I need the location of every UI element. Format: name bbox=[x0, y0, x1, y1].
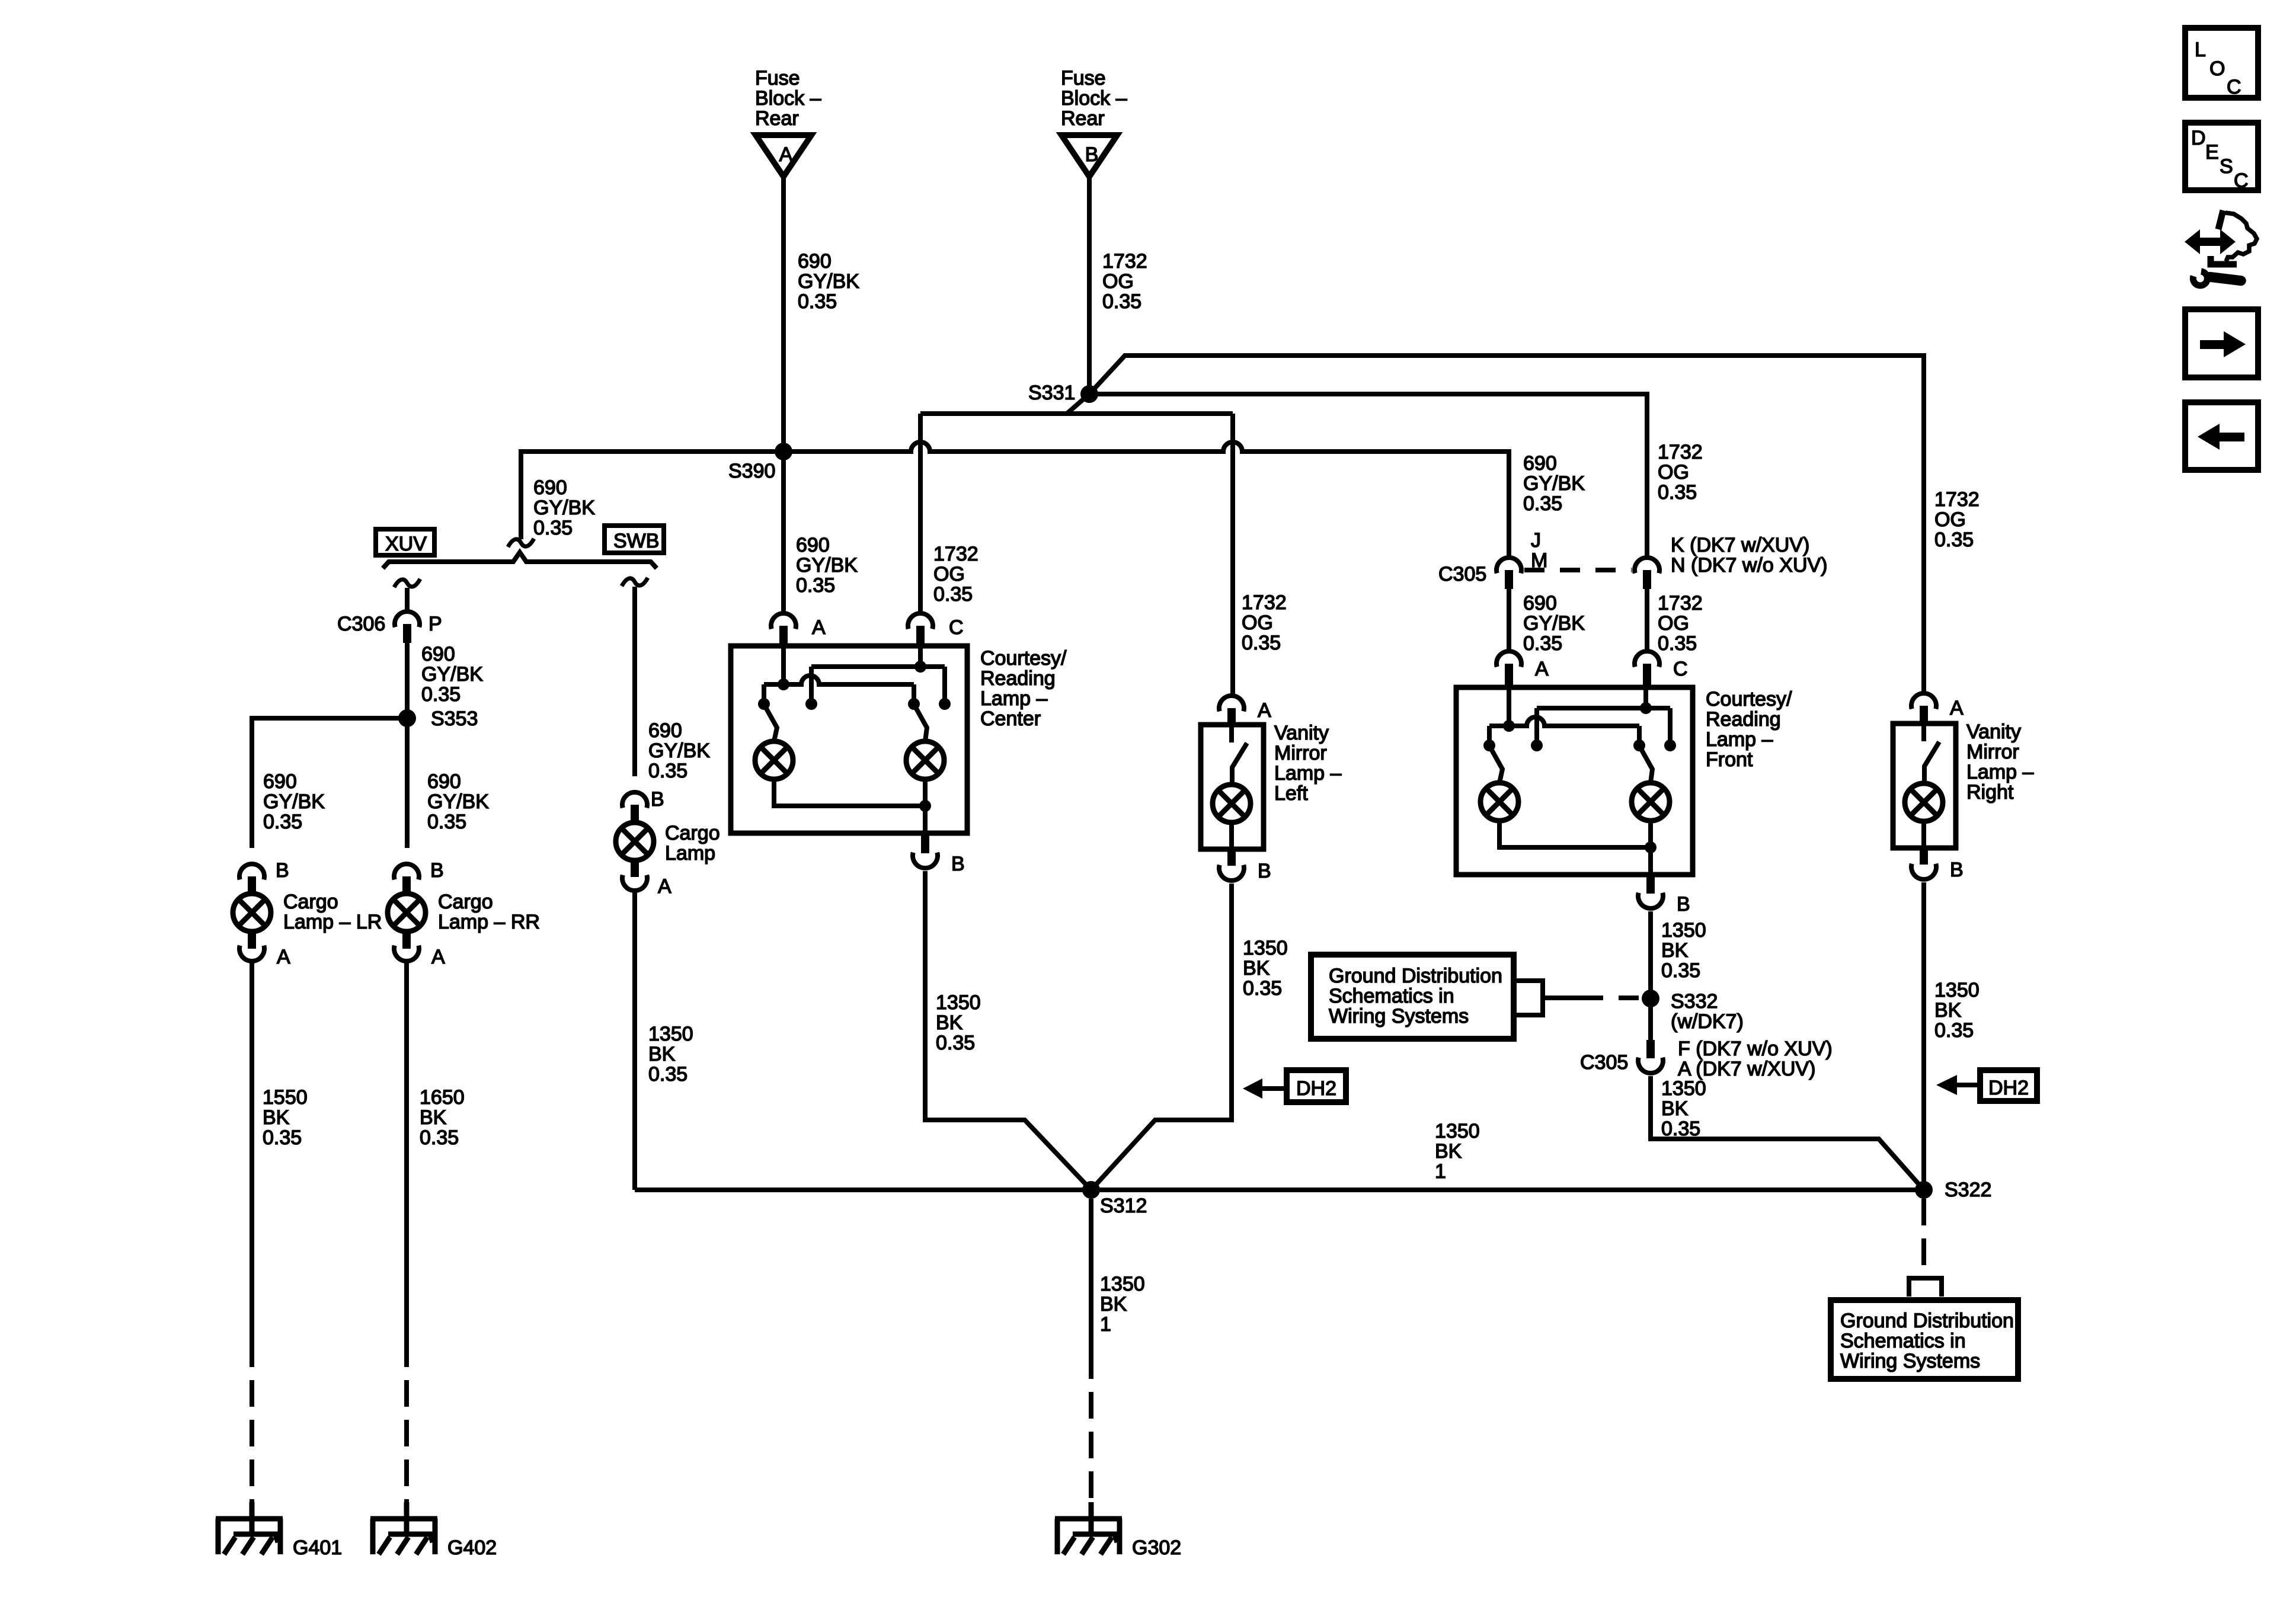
splice S312 bbox=[1082, 1181, 1147, 1217]
label box SWB bbox=[605, 526, 664, 553]
svg-text:0.35: 0.35 bbox=[1523, 632, 1562, 655]
svg-text:GY/BK: GY/BK bbox=[1523, 472, 1585, 495]
svg-text:Ground Distribution: Ground Distribution bbox=[1329, 965, 1502, 987]
icon previous-page arrow box bbox=[2185, 402, 2258, 470]
svg-text:Cargo: Cargo bbox=[438, 891, 493, 913]
svg-text:1350: 1350 bbox=[1934, 979, 1980, 1001]
svg-text:0.35: 0.35 bbox=[427, 811, 466, 833]
svg-text:BK: BK bbox=[1661, 939, 1689, 962]
wire XUV drop to C306 bbox=[405, 588, 410, 610]
svg-text:BK: BK bbox=[1661, 1097, 1689, 1120]
wire 690 GY/BK C306 to S353 bbox=[405, 643, 410, 718]
cargo lamp SWB connector B bbox=[622, 788, 664, 811]
svg-text:Lamp –: Lamp – bbox=[1274, 762, 1341, 785]
wire S331 to courtesy center C and vanity left bbox=[920, 394, 1233, 694]
svg-text:C306: C306 bbox=[337, 613, 385, 635]
svg-text:1732: 1732 bbox=[1242, 591, 1287, 614]
wire S390 left to XUV/SWB harness break bbox=[521, 452, 784, 539]
svg-text:Lamp –: Lamp – bbox=[1706, 728, 1773, 751]
courtesy/reading lamp center bbox=[731, 646, 1067, 833]
svg-text:1550: 1550 bbox=[263, 1086, 308, 1109]
svg-text:S331: S331 bbox=[1028, 382, 1075, 404]
svg-text:A: A bbox=[812, 616, 826, 639]
wire 1350 BK vanity left to S312 bbox=[1091, 884, 1232, 1190]
icon DESC box bbox=[2185, 123, 2258, 192]
label wire 1732 OG 0.35 (to C305 K/N) bbox=[1658, 441, 1703, 504]
wire dashed S322 to ground reference bbox=[1921, 1199, 1926, 1278]
svg-text:GY/BK: GY/BK bbox=[263, 790, 325, 813]
wire 690 GY/BK C305 to courtesy front A bbox=[1507, 589, 1511, 649]
svg-text:Mirror: Mirror bbox=[1274, 742, 1327, 764]
svg-text:B: B bbox=[1950, 859, 1964, 881]
cargo lamp RR connector B bbox=[394, 859, 444, 882]
svg-text:1732: 1732 bbox=[1658, 441, 1703, 463]
svg-text:Reading: Reading bbox=[1706, 708, 1781, 731]
cargo lamp LR bbox=[233, 876, 382, 949]
wire 690 GY/BK fuse A to S390 bbox=[781, 177, 786, 452]
wire S390 horizontal run with hops to C305 J/M bbox=[784, 442, 1509, 556]
harness break squiggle above brace bbox=[508, 539, 534, 547]
courtesy/reading lamp front bbox=[1456, 687, 1792, 875]
svg-text:A: A bbox=[1950, 697, 1964, 719]
svg-text:Right: Right bbox=[1966, 781, 2014, 804]
cargo lamp RR bbox=[388, 876, 540, 949]
wire 1350 BK ground bus bbox=[635, 1188, 1924, 1192]
connector vanity left pin B bbox=[1219, 849, 1271, 882]
harness option brace bbox=[383, 552, 657, 568]
svg-text:BK: BK bbox=[936, 1012, 963, 1034]
svg-text:B: B bbox=[951, 853, 965, 875]
wire S331 to vanity right (top run) bbox=[1089, 356, 1924, 692]
svg-text:GY/BK: GY/BK bbox=[1523, 612, 1585, 635]
svg-text:1732: 1732 bbox=[1934, 488, 1980, 511]
wire dashed to G302 bbox=[1089, 1352, 1093, 1502]
svg-text:0.35: 0.35 bbox=[1243, 977, 1282, 1000]
svg-text:B: B bbox=[651, 788, 664, 811]
label wire 1732 OG 0.35 (vanity right) bbox=[1934, 488, 1980, 551]
svg-text:GY/BK: GY/BK bbox=[796, 554, 858, 577]
svg-text:G302: G302 bbox=[1132, 1537, 1181, 1559]
svg-text:B: B bbox=[1677, 893, 1690, 916]
fuse block rear B label bbox=[1061, 67, 1127, 130]
svg-text:B: B bbox=[1085, 143, 1099, 166]
wire 690 GY/BK S390 run to C305 J bbox=[1523, 452, 1585, 515]
svg-text:B: B bbox=[430, 859, 444, 882]
label wire 690 GY/BK 0.35 (C306) bbox=[421, 643, 483, 706]
svg-text:0.35: 0.35 bbox=[648, 1063, 687, 1086]
connector C305 mating dashes bbox=[1524, 568, 1632, 572]
svg-text:0.35: 0.35 bbox=[1523, 492, 1562, 515]
svg-text:Fuse: Fuse bbox=[1061, 67, 1106, 89]
svg-text:690: 690 bbox=[263, 770, 297, 793]
splice S390 bbox=[728, 443, 792, 482]
svg-text:0.35: 0.35 bbox=[936, 1032, 975, 1054]
svg-text:B: B bbox=[1258, 860, 1271, 882]
wire 1350 BK courtesy center to S312 bbox=[925, 871, 1091, 1190]
svg-text:Left: Left bbox=[1274, 782, 1308, 805]
svg-text:0.35: 0.35 bbox=[796, 574, 835, 597]
ground G402 bbox=[370, 1502, 497, 1559]
cargo lamp RR connector A bbox=[394, 946, 445, 968]
svg-text:BK: BK bbox=[420, 1106, 447, 1129]
reference DH2 arrow (left) bbox=[1243, 1070, 1346, 1102]
svg-text:L: L bbox=[2195, 39, 2206, 61]
ground G401 bbox=[216, 1502, 342, 1559]
svg-text:Wiring Systems: Wiring Systems bbox=[1840, 1350, 1980, 1372]
wire 1350 BK C305 to S322 bbox=[1651, 1076, 1924, 1190]
cargo lamp SWB bbox=[616, 805, 720, 877]
svg-text:690: 690 bbox=[1523, 452, 1557, 475]
connector C305 pin F/A bbox=[1580, 1038, 1833, 1080]
svg-text:Courtesy/: Courtesy/ bbox=[1706, 688, 1792, 710]
svg-text:0.35: 0.35 bbox=[263, 811, 302, 833]
svg-text:BK: BK bbox=[263, 1106, 290, 1129]
svg-text:Wiring Systems: Wiring Systems bbox=[1329, 1005, 1469, 1028]
svg-text:C305: C305 bbox=[1580, 1051, 1628, 1074]
svg-text:0.35: 0.35 bbox=[1242, 632, 1281, 654]
wire 1350 BK vanity right to S322 bbox=[1921, 882, 1926, 1190]
wire 1732 OG fuse B to S331 bbox=[1087, 177, 1092, 394]
wire 1650 BK cargo RR to G402 bbox=[404, 963, 409, 1340]
svg-text:B: B bbox=[276, 859, 289, 882]
svg-text:0.35: 0.35 bbox=[1661, 959, 1700, 982]
svg-text:G401: G401 bbox=[293, 1537, 342, 1559]
svg-text:0.35: 0.35 bbox=[1658, 632, 1697, 655]
reference DH2 arrow (right) bbox=[1936, 1070, 2037, 1101]
svg-text:E: E bbox=[2205, 141, 2219, 164]
svg-text:690: 690 bbox=[1523, 592, 1557, 614]
label wire 690 GY/BK 0.35 (S390 left drop) bbox=[533, 476, 595, 539]
svg-text:P: P bbox=[428, 613, 442, 635]
label wire 690 GY/BK 0.35 (fuse A) bbox=[798, 250, 859, 313]
svg-text:Mirror: Mirror bbox=[1966, 741, 2019, 763]
connector courtesy center pin B bbox=[913, 833, 965, 875]
svg-text:C305: C305 bbox=[1438, 563, 1486, 585]
cargo lamp LR connector A bbox=[239, 946, 290, 968]
svg-text:J: J bbox=[1531, 529, 1541, 552]
svg-text:G402: G402 bbox=[447, 1537, 497, 1559]
svg-text:Lamp –: Lamp – bbox=[1966, 761, 2033, 783]
wire dashed to G401 bbox=[250, 1340, 254, 1502]
connector courtesy front pin A bbox=[1496, 651, 1549, 687]
svg-text:1732: 1732 bbox=[1102, 250, 1147, 273]
fuse block rear A label bbox=[755, 67, 821, 130]
harness break squiggle XUV drop bbox=[394, 579, 420, 587]
svg-text:S332: S332 bbox=[1671, 990, 1718, 1013]
svg-text:K (DK7 w/XUV): K (DK7 w/XUV) bbox=[1671, 534, 1809, 556]
wire 1350 BK S312 to G302 bbox=[1089, 1199, 1093, 1352]
svg-text:OG: OG bbox=[1658, 461, 1689, 484]
svg-text:1732: 1732 bbox=[1658, 592, 1703, 614]
svg-text:N (DK7 w/o XUV): N (DK7 w/o XUV) bbox=[1671, 554, 1828, 577]
svg-text:0.35: 0.35 bbox=[533, 517, 573, 539]
svg-text:Schematics in: Schematics in bbox=[1840, 1330, 1966, 1352]
connector C305 pins K/N bbox=[1635, 534, 1828, 589]
svg-text:OG: OG bbox=[1102, 270, 1134, 293]
wire S331 to C305 K/N bbox=[1089, 394, 1647, 556]
wire 690 GY/BK S390 to courtesy center A bbox=[781, 452, 786, 612]
svg-text:1732: 1732 bbox=[933, 543, 978, 565]
svg-text:DH2: DH2 bbox=[1988, 1077, 2029, 1099]
wire 1732 OG C305 to courtesy front C bbox=[1645, 589, 1649, 649]
svg-text:Block –: Block – bbox=[755, 87, 821, 110]
svg-text:1: 1 bbox=[1435, 1160, 1446, 1183]
svg-text:OG: OG bbox=[933, 563, 965, 585]
svg-text:1350: 1350 bbox=[936, 991, 981, 1014]
wire S353 to cargo lamp RR bbox=[405, 718, 410, 848]
svg-text:A: A bbox=[658, 875, 671, 898]
svg-text:Lamp – RR: Lamp – RR bbox=[438, 911, 540, 933]
svg-text:Center: Center bbox=[980, 708, 1041, 730]
label wire 690 GY/BK 0.35 (SWB) bbox=[648, 719, 710, 782]
svg-text:690: 690 bbox=[533, 476, 567, 499]
connector vanity right pin B bbox=[1911, 848, 1964, 881]
svg-text:S: S bbox=[2220, 155, 2233, 178]
svg-text:SWB: SWB bbox=[613, 530, 659, 552]
svg-text:0.35: 0.35 bbox=[421, 683, 461, 706]
svg-text:GY/BK: GY/BK bbox=[798, 270, 859, 293]
svg-text:Rear: Rear bbox=[1061, 107, 1105, 130]
svg-text:1350: 1350 bbox=[648, 1023, 693, 1045]
icon LOC box bbox=[2185, 28, 2258, 98]
svg-text:1350: 1350 bbox=[1100, 1273, 1145, 1295]
icon schematic-usage (arrow + outline + wrench) bbox=[2185, 210, 2257, 286]
connector vanity right pin A bbox=[1911, 693, 1964, 724]
connector courtesy front pin C bbox=[1635, 651, 1688, 687]
svg-text:0.35: 0.35 bbox=[263, 1126, 302, 1149]
svg-text:BK: BK bbox=[1100, 1293, 1127, 1315]
splice S331 bbox=[1028, 382, 1098, 404]
svg-text:690: 690 bbox=[648, 719, 682, 742]
svg-text:Ground Distribution: Ground Distribution bbox=[1840, 1310, 2014, 1332]
svg-text:S390: S390 bbox=[728, 460, 775, 482]
svg-text:GY/BK: GY/BK bbox=[427, 790, 489, 813]
svg-text:1350: 1350 bbox=[1661, 919, 1706, 942]
connector C305 pins J/M bbox=[1438, 529, 1547, 589]
svg-text:GY/BK: GY/BK bbox=[533, 497, 595, 519]
wire 1350 BK courtesy front to S332 bbox=[1648, 911, 1653, 1040]
svg-text:0.35: 0.35 bbox=[798, 290, 837, 313]
off-page connector bracket bbox=[1907, 1278, 1944, 1297]
svg-text:0.35: 0.35 bbox=[1658, 481, 1697, 504]
svg-text:Courtesy/: Courtesy/ bbox=[980, 647, 1067, 670]
svg-text:1350: 1350 bbox=[1243, 937, 1288, 959]
ground distribution reference box (S332) bbox=[1311, 955, 1641, 1039]
connector courtesy center pin C bbox=[908, 613, 964, 646]
label wire 1732 OG 0.35 (vanity left) bbox=[1242, 591, 1287, 654]
svg-text:Fuse: Fuse bbox=[755, 67, 800, 89]
wire 1550 BK cargo LR to G401 bbox=[250, 963, 254, 1340]
svg-text:BK: BK bbox=[1435, 1140, 1462, 1163]
label wire 690 GY/BK 0.35 (RR branch) bbox=[427, 770, 489, 833]
svg-text:XUV: XUV bbox=[385, 533, 427, 555]
svg-text:Reading: Reading bbox=[980, 667, 1056, 690]
svg-text:Vanity: Vanity bbox=[1966, 721, 2021, 743]
svg-text:Cargo: Cargo bbox=[283, 891, 338, 913]
svg-text:Lamp: Lamp bbox=[665, 842, 715, 865]
svg-text:DH2: DH2 bbox=[1296, 1077, 1336, 1100]
svg-text:C: C bbox=[2234, 169, 2249, 192]
svg-text:0.35: 0.35 bbox=[1661, 1118, 1700, 1140]
svg-text:F (DK7 w/o XUV): F (DK7 w/o XUV) bbox=[1678, 1038, 1833, 1060]
ground G302 bbox=[1055, 1502, 1181, 1559]
svg-text:690: 690 bbox=[796, 534, 830, 556]
svg-text:S322: S322 bbox=[1945, 1179, 1991, 1201]
label wire 690 GY/BK 0.35 (LR branch) bbox=[263, 770, 325, 833]
svg-text:0.35: 0.35 bbox=[1934, 529, 1974, 551]
fuse block rear B triangle bbox=[1061, 135, 1117, 177]
svg-text:(w/DK7): (w/DK7) bbox=[1671, 1010, 1744, 1033]
svg-text:OG: OG bbox=[1242, 612, 1273, 634]
svg-text:0.35: 0.35 bbox=[1102, 290, 1141, 313]
cargo lamp SWB connector A bbox=[622, 875, 671, 898]
svg-text:GY/BK: GY/BK bbox=[421, 663, 483, 686]
harness break squiggle SWB drop bbox=[622, 578, 648, 586]
label wire 1732 OG 0.35 (fuse B) bbox=[1102, 250, 1147, 313]
svg-text:S312: S312 bbox=[1100, 1195, 1147, 1217]
svg-text:690: 690 bbox=[427, 770, 461, 793]
svg-text:1350: 1350 bbox=[1661, 1077, 1706, 1100]
label box XUV bbox=[376, 529, 434, 555]
svg-text:BK: BK bbox=[1243, 957, 1270, 980]
svg-text:0.35: 0.35 bbox=[933, 583, 973, 606]
svg-text:A: A bbox=[1258, 699, 1271, 722]
icon next-page arrow box bbox=[2185, 309, 2258, 377]
connector vanity left pin A bbox=[1219, 696, 1271, 725]
svg-text:D: D bbox=[2191, 127, 2206, 149]
svg-text:Lamp – LR: Lamp – LR bbox=[283, 911, 382, 933]
svg-text:0.35: 0.35 bbox=[420, 1126, 459, 1149]
svg-text:BK: BK bbox=[1934, 999, 1962, 1022]
ground distribution reference box (S322) bbox=[1831, 1300, 2018, 1379]
connector courtesy center pin A bbox=[771, 613, 826, 646]
svg-text:BK: BK bbox=[648, 1043, 676, 1065]
svg-text:A: A bbox=[431, 946, 445, 968]
splice S322 bbox=[1915, 1179, 1991, 1201]
svg-text:GY/BK: GY/BK bbox=[648, 740, 710, 762]
svg-text:O: O bbox=[2209, 57, 2225, 80]
svg-text:1350: 1350 bbox=[1435, 1120, 1480, 1142]
connector C306 pin P bbox=[337, 612, 442, 643]
svg-text:OG: OG bbox=[1658, 612, 1689, 635]
label wire 1732 OG 0.35 (courtesy center C) bbox=[933, 543, 978, 606]
svg-text:C: C bbox=[949, 616, 964, 639]
svg-text:A: A bbox=[1535, 658, 1549, 680]
fuse block rear A triangle bbox=[756, 135, 811, 177]
svg-text:690: 690 bbox=[798, 250, 832, 273]
label wire 1350 BK 1 (bus) bbox=[1435, 1120, 1480, 1183]
svg-text:Cargo: Cargo bbox=[665, 822, 720, 844]
vanity mirror lamp left bbox=[1201, 722, 1341, 849]
svg-text:Front: Front bbox=[1706, 748, 1753, 771]
svg-text:C: C bbox=[2227, 76, 2241, 98]
svg-text:Vanity: Vanity bbox=[1274, 722, 1329, 744]
cargo lamp LR connector B bbox=[239, 859, 289, 882]
splice S332 bbox=[1642, 990, 1744, 1033]
svg-text:Schematics in: Schematics in bbox=[1329, 985, 1454, 1007]
svg-text:1: 1 bbox=[1100, 1313, 1111, 1336]
svg-text:Block –: Block – bbox=[1061, 87, 1127, 110]
wire S353 branch to cargo lamp LR bbox=[252, 718, 407, 848]
svg-text:Lamp –: Lamp – bbox=[980, 687, 1047, 710]
svg-text:C: C bbox=[1673, 658, 1688, 680]
wire 1350 BK cargo lamp to S312 bus bbox=[632, 892, 637, 1190]
svg-text:0.35: 0.35 bbox=[1934, 1019, 1974, 1042]
svg-text:690: 690 bbox=[421, 643, 455, 665]
svg-text:A: A bbox=[277, 946, 290, 968]
svg-text:0.35: 0.35 bbox=[648, 760, 687, 782]
wire 690 GY/BK SWB drop bbox=[632, 587, 637, 776]
splice S353 bbox=[398, 708, 478, 730]
svg-text:S353: S353 bbox=[431, 708, 478, 730]
svg-text:Rear: Rear bbox=[755, 107, 799, 130]
svg-text:1650: 1650 bbox=[420, 1086, 465, 1109]
vanity mirror lamp right bbox=[1893, 721, 2033, 848]
svg-text:A: A bbox=[779, 143, 793, 166]
connector courtesy front pin B bbox=[1638, 874, 1690, 916]
svg-text:OG: OG bbox=[1934, 508, 1966, 531]
wire dashed to G402 bbox=[404, 1340, 409, 1502]
